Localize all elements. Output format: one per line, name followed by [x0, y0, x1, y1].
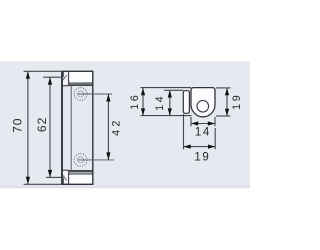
svg-text:14: 14 [195, 127, 211, 139]
svg-text:14: 14 [154, 94, 166, 111]
svg-text:19: 19 [194, 151, 210, 163]
svg-text:42: 42 [110, 117, 122, 135]
svg-text:70: 70 [11, 118, 25, 133]
svg-text:62: 62 [35, 117, 49, 132]
svg-text:16: 16 [129, 93, 141, 110]
svg-text:19: 19 [231, 93, 243, 110]
